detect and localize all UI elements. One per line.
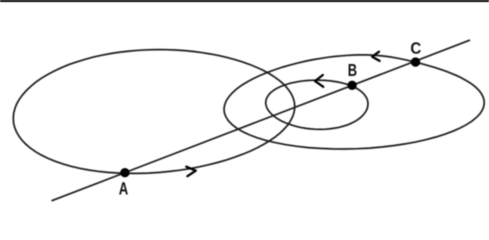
arrow on right ellipse near C (pointing left) (372, 52, 379, 61)
arrow on small ellipse near B (pointing left) (315, 75, 323, 87)
label C (411, 42, 421, 53)
label A (119, 182, 128, 194)
point B (347, 81, 356, 90)
point A (120, 168, 129, 177)
orbit ellipse through C (large right) (224, 55, 484, 149)
arrow on left ellipse near A (pointing right) (186, 167, 196, 177)
line through A B C (52, 40, 471, 201)
orbit ellipse through B (small) (266, 80, 368, 129)
top border bar (0, 0, 489, 2)
point C (411, 57, 420, 66)
orbit ellipse through A (large left) (13, 50, 294, 174)
label B (349, 64, 357, 76)
